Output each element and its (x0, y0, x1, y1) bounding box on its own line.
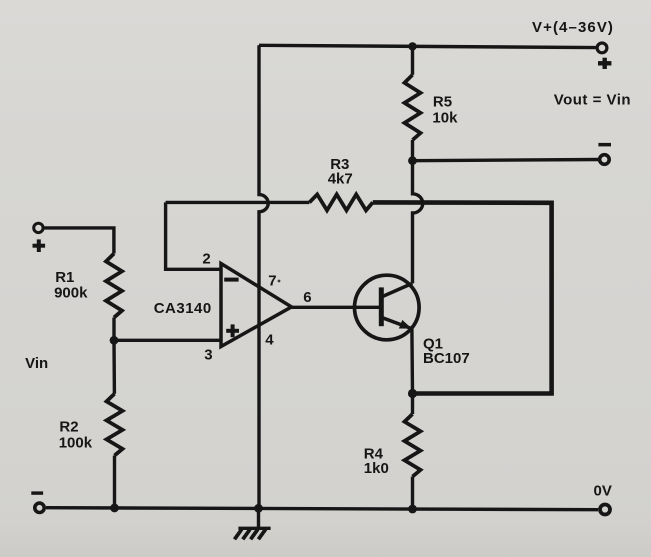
wire R1 bottom to junction node (112, 318, 115, 341)
svg-text:BC107: BC107 (423, 350, 470, 367)
svg-text:900k: 900k (54, 284, 88, 301)
svg-text:Vout = Vin: Vout = Vin (554, 92, 631, 109)
input minus symbol (31, 491, 43, 494)
wire top supply rail V+ (259, 45, 597, 47)
terminal V+ supply (597, 43, 607, 53)
transistor Q1 base bar (379, 287, 384, 326)
wire R5 top connection from rail (411, 46, 414, 74)
Vout minus symbol (598, 143, 611, 147)
svg-text:CA3140: CA3140 (154, 300, 212, 317)
junction R2 / 0V rail (110, 504, 119, 513)
svg-text:7: 7 (268, 273, 276, 290)
op-amp U1 CA3140 triangle (221, 264, 292, 347)
resistor R4 1k0 zigzag (405, 414, 421, 477)
wire R5 bottom to node (411, 140, 414, 161)
terminal input minus (35, 503, 44, 512)
wire pin2 feedback branch from R3 node down to inverting input (166, 202, 220, 269)
resistor R2 100k zigzag (107, 394, 123, 456)
wire collector line from node down with hop over feedback wire (413, 161, 423, 284)
wire R2 bottom to 0V rail (113, 456, 116, 509)
transistor Q1 emitter arrowhead (399, 320, 412, 329)
svg-text:2: 2 (202, 250, 210, 267)
wire op-amp output pin 6 to transistor base (292, 306, 380, 309)
svg-text:R2: R2 (59, 418, 78, 435)
svg-text:3: 3 (204, 347, 212, 364)
svg-text:0V: 0V (594, 483, 612, 500)
junction R5 bottom / Vout- / collector (408, 156, 417, 165)
svg-text:6: 6 (303, 289, 311, 306)
svg-text:V+(4–36V): V+(4–36V) (532, 19, 614, 36)
wire input plus terminal to R1 top (44, 228, 114, 254)
wire R4 bottom to 0V rail (411, 477, 414, 509)
transistor Q1 BC107 (355, 275, 420, 340)
wire left vertical supply/ground line x=259 (pin7/pin4 line) with hop over feedback wire (259, 45, 268, 508)
terminal input plus (34, 223, 43, 232)
wire junction down to R2 top (112, 340, 116, 394)
wire node to R4 top (411, 394, 414, 415)
junction top rail / R5 (408, 42, 416, 50)
terminal Vout minus (600, 155, 610, 165)
speck near pin 7 (278, 280, 281, 283)
wire emitter down to node (410, 329, 414, 394)
junction emitter / feedback / R4 node (408, 389, 417, 398)
V+ plus symbol (598, 58, 611, 69)
junction ground / 0V rail (254, 504, 263, 513)
resistor R1 900k zigzag (106, 254, 122, 318)
svg-text:Vin: Vin (25, 355, 48, 372)
svg-text:R5: R5 (433, 94, 452, 111)
terminal 0V (600, 505, 610, 515)
wire feedback loop: R3 right end to emitter node (heavy) (373, 202, 552, 393)
junction R4 / 0V rail (408, 505, 417, 514)
wire R3 left horizontal segment (166, 201, 310, 204)
op-amp non-inverting input plus symbol (226, 324, 239, 337)
ground symbol (235, 528, 271, 539)
input plus symbol (33, 239, 46, 252)
wire bottom 0V rail (46, 508, 598, 510)
svg-text:100k: 100k (59, 434, 93, 451)
transistor Q1 collector stroke (383, 283, 413, 296)
op-amp inverting input minus symbol (224, 278, 238, 282)
svg-text:10k: 10k (432, 110, 458, 127)
resistor R3 4k7 zigzag (309, 194, 372, 210)
svg-text:1k0: 1k0 (364, 460, 389, 477)
svg-text:4k7: 4k7 (328, 171, 353, 188)
svg-text:4: 4 (265, 331, 274, 348)
wire junction to non-inverting input pin 3 (114, 339, 220, 342)
junction R1/R2/pin3 node (110, 336, 119, 345)
ground stem below rail (257, 508, 260, 527)
resistor R5 10k zigzag (405, 75, 421, 140)
transistor Q1 emitter stroke (383, 318, 412, 329)
wire Vout minus line from R5/collector node to output terminal (413, 160, 600, 161)
